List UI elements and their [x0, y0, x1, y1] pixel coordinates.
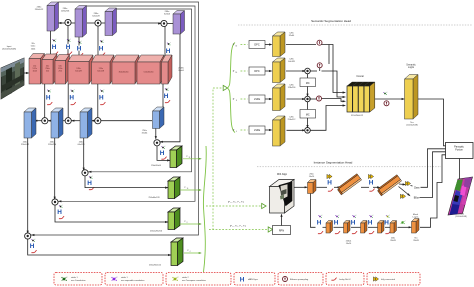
- svg-text:H: H: [87, 180, 92, 187]
- svg-text:H: H: [240, 276, 245, 283]
- svg-text:H: H: [66, 44, 71, 51]
- green output box P4 256x256x512: [171, 238, 183, 266]
- conv sparkle icon col3 lower: [100, 89, 104, 92]
- semantic yellow feature box row4: [273, 116, 286, 146]
- wire bar1 to bar2: [361, 186, 369, 188]
- upsample circle row1: [317, 40, 322, 45]
- wire backbone down col1: [44, 84, 46, 118]
- wire bar2 to bbox: [399, 187, 410, 196]
- conv sparkle icon col2 upper: [100, 40, 104, 43]
- wire row2 sum to upsample: [310, 70, 317, 72]
- svg-text:256x512: 256x512: [35, 9, 44, 11]
- conv sparkle icon col4 lower: [165, 88, 169, 91]
- legend cell bilinear upsampling: [278, 273, 323, 286]
- mask iABN 2: [333, 220, 338, 227]
- mask iABN 5: [384, 220, 389, 227]
- backbone red stage 6: [112, 55, 139, 84]
- wire bar2 to class: [399, 183, 405, 186]
- svg-text:H: H: [69, 94, 74, 101]
- arrow into P8 node: [58, 200, 61, 202]
- svg-text:256x256x512: 256x256x512: [149, 265, 162, 267]
- bottom-up FPN row wire: [34, 120, 42, 122]
- P8 merge node: [52, 199, 58, 205]
- green gathering brace: [203, 146, 206, 272]
- svg-text:64x128: 64x128: [92, 16, 100, 18]
- svg-text:H: H: [327, 180, 332, 187]
- svg-text:MC: MC: [306, 82, 310, 85]
- svg-text:256x64x128: 256x64x128: [149, 197, 161, 199]
- conv sparkle icon col2 lower: [71, 89, 75, 92]
- semantic yellow feature box row1: [273, 32, 286, 57]
- wire ROI to instance chains: [294, 186, 307, 188]
- arrow into node blue2: [71, 120, 74, 122]
- svg-text:Concat: Concat: [356, 75, 364, 78]
- wire upsample1 down to sum2: [328, 45, 330, 65]
- iABN icon col1-a upper: [51, 44, 56, 51]
- conv sparkle icon col1 lower: [47, 89, 51, 92]
- wire blue box3 down to P16 node: [83, 138, 85, 170]
- svg-text:ROI Align: ROI Align: [277, 173, 288, 176]
- svg-text:32x64: 32x64: [289, 35, 295, 37]
- mask conv sparkle 4: [369, 215, 373, 218]
- backbone red stage 7: [137, 55, 164, 84]
- RPN box: [273, 226, 291, 235]
- panoptic fusion box: [446, 143, 474, 159]
- svg-text:H: H: [57, 209, 62, 216]
- svg-text:Nₛx: Nₛx: [410, 122, 413, 124]
- svg-text:32x64: 32x64: [164, 14, 171, 16]
- instance head dashed boundary: [257, 166, 441, 168]
- wire DPC to feature box: [265, 70, 271, 72]
- top-down FPN bus wire from P8 unit, y=6: [58, 6, 195, 201]
- bottom-up sum node 3: [95, 118, 101, 124]
- P4 conv sparkle: [31, 239, 35, 242]
- iABN icon col4 lower: [163, 93, 168, 100]
- P16 iABN icon: [87, 180, 92, 187]
- leaky relu icon col1 lower: [47, 102, 52, 105]
- legend cell separable conv: [105, 273, 163, 286]
- svg-text:304x32x64: 304x32x64: [119, 72, 130, 74]
- P8 conv sparkle: [59, 205, 63, 208]
- mask iABN 1: [316, 220, 321, 227]
- LSFE module box row4: [249, 126, 265, 134]
- svg-text:BBox: BBox: [414, 198, 420, 200]
- leaky relu icon col2-b upper: [78, 53, 83, 56]
- green dashed stub P4: [241, 129, 248, 131]
- svg-text:28x28: 28x28: [413, 240, 419, 242]
- lateral wire backbone to FPN node col2: [97, 26, 99, 60]
- green output box P16 256x64x128: [168, 177, 180, 199]
- svg-text:RPN: RPN: [279, 230, 284, 233]
- legend cell fully connected: [367, 273, 420, 286]
- svg-text:H: H: [99, 45, 104, 52]
- svg-text:H: H: [368, 220, 373, 227]
- arrow into P16 node: [88, 171, 91, 173]
- svg-text:[P₃₂, P₁₆, P₈, P₄]: [P₃₂, P₁₆, P₈, P₄]: [228, 201, 244, 203]
- svg-text:256x: 256x: [309, 174, 313, 176]
- green dashed feed to RPN: [209, 229, 268, 231]
- legend cell transpose conv: [166, 273, 231, 286]
- svg-text:64x128: 64x128: [97, 71, 104, 73]
- mask conv box 1: [326, 221, 333, 234]
- svg-text:128x256: 128x256: [288, 87, 297, 89]
- mask iABN 4: [367, 220, 372, 227]
- svg-text:LSFE: LSFE: [254, 98, 261, 101]
- svg-text:H: H: [384, 220, 389, 227]
- arrow into P32 node: [160, 141, 163, 143]
- sum node row4: [305, 128, 311, 134]
- svg-text:non separable convolution: non separable convolution: [121, 279, 144, 282]
- wire DPC to feature box: [265, 44, 271, 46]
- concat block: [347, 82, 375, 112]
- svg-text:non Convolution: non Convolution: [71, 279, 85, 282]
- svg-text:256x4: 256x4: [346, 241, 352, 243]
- wire sum2 down through MC to sum3: [307, 74, 309, 78]
- svg-text:H: H: [46, 94, 51, 101]
- arrow into node blue1: [48, 120, 51, 122]
- svg-text:H: H: [166, 48, 171, 55]
- svg-text:H: H: [77, 45, 82, 52]
- green output box P32 256x32x64: [170, 146, 182, 168]
- svg-text:Instance Segmentation Head: Instance Segmentation Head: [314, 161, 353, 165]
- wire purple box A down to backbone: [50, 31, 52, 59]
- mask conv sparkle 5: [386, 215, 390, 218]
- fc star bbox: [400, 194, 405, 198]
- svg-text:stride 1: stride 1: [71, 276, 78, 279]
- mask wire staircase to fusion: [420, 155, 446, 228]
- leaky relu icon col4 upper: [167, 55, 172, 58]
- svg-text:128x: 128x: [289, 33, 293, 35]
- P32 out wire to green box: [157, 146, 170, 161]
- wire row1 to upsample: [286, 44, 316, 46]
- backbone red stage 2: [42, 54, 57, 84]
- wire RPN to ROI: [281, 215, 283, 226]
- wire row2 to concat: [322, 71, 345, 97]
- wire LSFE to feature box: [265, 129, 271, 131]
- blue FPN box 1 256x256x512: [24, 108, 36, 138]
- svg-text:64x128: 64x128: [75, 71, 82, 73]
- LSFE module box row3: [249, 95, 265, 103]
- semantic head dashed boundary: [238, 24, 472, 26]
- wire blue box2 down to P8 node: [54, 138, 56, 199]
- wire down to mask chain: [311, 194, 316, 228]
- svg-text:128x: 128x: [289, 59, 293, 61]
- lateral wire backbone to FPN node col1: [67, 26, 69, 60]
- wire row3 sum to upsample: [309, 98, 316, 100]
- semantic yellow feature box row2: [273, 58, 286, 83]
- backbone red stage 4: [68, 55, 93, 84]
- wire concat to semantic logits: [375, 98, 404, 100]
- svg-text:512x256x512: 512x256x512: [351, 115, 364, 117]
- blue FPN box 3 256x64x128: [80, 108, 92, 138]
- FPN P32 unit output wire down from purple box D: [160, 34, 180, 142]
- leaky relu icon col1-a upper: [53, 52, 58, 55]
- arrowhead into semantic brace: [223, 85, 227, 90]
- wire row2 to sum: [286, 70, 304, 72]
- wire into bar1: [334, 186, 340, 188]
- leaky relu icon col1 upper: [67, 52, 72, 55]
- mask conv box 4: [378, 221, 385, 234]
- DPC module box row2: [249, 67, 265, 75]
- svg-text:2: 2: [405, 220, 406, 222]
- green dashed feed to ROI align: [206, 205, 261, 207]
- svg-text:stride 2: stride 2: [182, 276, 189, 279]
- mask conv box 3: [361, 221, 368, 234]
- mask relu 3: [352, 231, 357, 234]
- FPN sum node between A and B: [65, 19, 71, 25]
- svg-text:Logits: Logits: [408, 66, 415, 69]
- svg-text:DPC: DPC: [254, 70, 259, 73]
- svg-text:4: 4: [236, 131, 237, 133]
- svg-text:Input: Input: [7, 45, 12, 48]
- mask conv box 5: [390, 221, 397, 234]
- mask conv box 2: [344, 221, 351, 234]
- wire into bar2: [373, 186, 379, 188]
- P32 leaky relu: [161, 157, 166, 160]
- wire blue box4 down to P32 node: [155, 129, 157, 139]
- sum node row3: [305, 96, 311, 102]
- mask logits box: [412, 219, 420, 234]
- iABN icon col2 lower: [69, 94, 74, 101]
- iABN top2: [368, 180, 373, 187]
- legend cell iABN sync: [234, 273, 275, 286]
- arrow into blue box1: [34, 120, 37, 122]
- purple FPN box C 256x64x128: [105, 8, 117, 36]
- wire sum3 down through MC to sum4: [307, 102, 309, 110]
- semantic logits box: [405, 75, 419, 120]
- backbone red stage 3: [55, 55, 70, 85]
- transpose conv sparkle before mask logits: [401, 220, 406, 224]
- leaky relu icon col2 upper: [100, 53, 105, 56]
- P4 iABN icon: [29, 243, 34, 250]
- P4 merge node: [25, 233, 31, 239]
- top-down FPN bus wire from P16 unit, y=9: [88, 9, 192, 172]
- svg-text:H: H: [160, 150, 165, 157]
- mask chain wire: [323, 226, 327, 228]
- instance input box 256x14x14: [308, 180, 317, 194]
- blue FPN box 4 256x32x64: [153, 107, 165, 129]
- iABN icon col1 upper: [65, 44, 70, 51]
- mask iABN 3: [350, 220, 355, 227]
- iABN icon col2-b upper: [76, 45, 81, 52]
- svg-text:128x256: 128x256: [48, 144, 57, 146]
- FPN sum node between B and C: [95, 20, 101, 26]
- relu top1: [328, 189, 333, 192]
- svg-text:H: H: [351, 220, 356, 227]
- P32 iABN icon: [159, 150, 164, 157]
- svg-text:256x512: 256x512: [21, 144, 30, 146]
- mask relu 4: [369, 231, 374, 234]
- svg-text:Bilinear upsampling: Bilinear upsampling: [290, 278, 309, 281]
- P32 green arrow out: [183, 158, 201, 160]
- svg-text:16: 16: [235, 72, 237, 74]
- iABN icon col4 upper: [165, 48, 170, 55]
- iABN icon col2 upper: [98, 45, 103, 52]
- P4 out wire to green box: [28, 239, 171, 255]
- DPC module box row1: [249, 41, 265, 49]
- class arrow: [411, 185, 413, 188]
- purple FPN box A 256x256x512: [47, 2, 59, 31]
- wire row3 to concat: [322, 99, 345, 102]
- svg-text:28x28: 28x28: [390, 240, 396, 242]
- legend cell convolution: [54, 273, 102, 286]
- P32 conv sparkle: [161, 146, 165, 149]
- P16 out wire to green box: [85, 176, 168, 188]
- arrow input to backbone: [24, 72, 28, 74]
- P8 iABN icon: [57, 209, 62, 216]
- svg-text:DPC: DPC: [254, 44, 259, 47]
- svg-text:[P₃₂, P₁₆, P₈, P₄]: [P₃₂, P₁₆, P₈, P₄]: [230, 225, 246, 227]
- svg-text:(3x1024x2048): (3x1024x2048): [2, 49, 16, 51]
- svg-text:(1024x2048): (1024x2048): [455, 216, 467, 218]
- input city image: [1, 58, 24, 99]
- svg-text:32: 32: [189, 157, 191, 159]
- svg-text:32: 32: [235, 45, 237, 47]
- wire backbone down col3: [97, 84, 99, 118]
- MC box row2-3: [300, 78, 316, 87]
- backbone red stage 5: [92, 55, 115, 84]
- svg-text:14x14: 14x14: [346, 243, 352, 245]
- conv sparkle icon col1 upper: [67, 39, 71, 42]
- svg-text:256x128x256: 256x128x256: [150, 231, 163, 233]
- mask conv sparkle 1: [318, 215, 322, 218]
- P16 green arrow out: [180, 189, 201, 191]
- sum node row2: [305, 68, 311, 74]
- purple FPN box D 256x32x64: [173, 11, 185, 35]
- P8 green arrow out: [180, 223, 201, 225]
- P8 out wire to green box: [55, 205, 168, 222]
- svg-text:Fusion: Fusion: [455, 149, 463, 152]
- semantic input brace: [227, 43, 235, 133]
- svg-text:H: H: [334, 220, 339, 227]
- svg-text:H: H: [99, 94, 104, 101]
- svg-text:256x: 256x: [391, 238, 395, 240]
- svg-text:H: H: [30, 243, 35, 250]
- svg-text:Logits: Logits: [413, 216, 420, 219]
- arrow into node blue3: [91, 120, 94, 122]
- green dashed stub P8: [241, 98, 248, 100]
- wire purple box B down to backbone: [78, 37, 80, 61]
- svg-text:32x64: 32x64: [142, 133, 149, 135]
- svg-text:128x: 128x: [289, 85, 293, 87]
- P16 leaky relu: [89, 187, 94, 190]
- arrow into P4 node: [31, 234, 34, 236]
- P4 green arrow out: [184, 252, 201, 254]
- purple FPN box B 256x128x256: [75, 6, 87, 38]
- green dashed feed to semantic head: [212, 88, 214, 230]
- wire LSFE to feature box: [265, 98, 271, 100]
- svg-text:(1024x2048): (1024x2048): [406, 125, 418, 127]
- svg-text:256x32x64: 256x32x64: [151, 165, 162, 167]
- P4 leaky relu: [31, 250, 36, 253]
- svg-text:128x256: 128x256: [61, 11, 70, 13]
- svg-text:stride 1: stride 1: [121, 276, 128, 279]
- wire blue box1 down to P4 node: [27, 138, 29, 233]
- class wire to fusion: [421, 149, 446, 188]
- wire to mask logits box: [398, 226, 411, 228]
- P16 merge node: [82, 170, 88, 176]
- svg-text:32x64: 32x64: [178, 70, 184, 72]
- svg-text:14x14: 14x14: [309, 176, 315, 178]
- relu top2: [369, 189, 374, 192]
- lateral wire backbone to FPN node col3: [164, 26, 166, 60]
- mask relu 2: [335, 231, 340, 234]
- ROI align box: [270, 180, 295, 214]
- svg-text:Output: Output: [458, 212, 464, 215]
- mask conv sparkle 3: [352, 215, 356, 218]
- svg-text:Class: Class: [414, 187, 421, 189]
- wire row4 to sum: [287, 129, 305, 131]
- svg-text:Mask: Mask: [413, 214, 419, 216]
- mask conv sparkle 2: [335, 215, 339, 218]
- fc star top2: [368, 174, 373, 178]
- blue FPN box 2 256x128x256: [51, 108, 63, 138]
- green output box P8 256x128x256: [168, 208, 180, 230]
- svg-text:H: H: [164, 93, 169, 100]
- leaky relu icon col2 lower: [71, 102, 76, 105]
- iABN icon col3 lower: [99, 94, 104, 101]
- wire backbone down col2: [67, 84, 69, 118]
- upsample x4 circle: [384, 101, 389, 106]
- output panoptic image: [448, 177, 473, 215]
- mask relu 5: [385, 231, 390, 234]
- svg-text:256x512: 256x512: [288, 119, 297, 121]
- wire row3 to sum: [287, 98, 305, 100]
- svg-text:H: H: [369, 180, 374, 187]
- wire fusion to output: [459, 159, 461, 184]
- svg-text:fully connected: fully connected: [381, 278, 396, 281]
- bbox wire to fusion: [420, 152, 446, 198]
- arrow into FPN sum node near box D: [158, 22, 161, 24]
- iABN icon col1 lower: [46, 94, 51, 101]
- fc star top1: [327, 174, 332, 178]
- leaky relu icon col4 lower: [165, 100, 170, 103]
- svg-text:8: 8: [236, 100, 237, 102]
- leaky relu icon col3 lower: [100, 102, 105, 105]
- backbone red stage 1: [29, 54, 45, 85]
- iABN top1: [327, 180, 332, 187]
- P8 leaky relu: [59, 216, 64, 219]
- wire row4 to concat: [310, 106, 344, 131]
- arrow into purple box A: [58, 22, 61, 24]
- svg-text:H: H: [52, 44, 57, 51]
- mask relu 1: [318, 231, 323, 234]
- svg-text:64x128: 64x128: [288, 61, 295, 63]
- wire backbone down col4 to blue box4: [162, 84, 164, 108]
- P16 conv sparkle: [89, 176, 93, 179]
- top-down FPN bus wire from P4 unit, y=2: [30, 2, 199, 235]
- instance conv bar 2: [382, 180, 402, 195]
- upsample circle row3: [317, 96, 322, 101]
- svg-text:512x32x64: 512x32x64: [144, 72, 155, 74]
- P32 merge node: [154, 140, 160, 146]
- svg-text:Semantic: Semantic: [406, 64, 416, 67]
- semantic yellow feature box row3: [273, 84, 286, 111]
- svg-text:128x: 128x: [289, 117, 293, 119]
- wire to bbox chain: [317, 186, 328, 188]
- bottom-up sum node 1: [42, 118, 48, 124]
- wire semantic logits to fusion: [418, 99, 446, 146]
- svg-text:Semantic Segmentation Head: Semantic Segmentation Head: [311, 19, 351, 23]
- svg-text:H: H: [317, 220, 322, 227]
- wire row1 to concat: [322, 45, 345, 93]
- green dashed stub P32: [241, 44, 248, 46]
- svg-text:iABN Sync: iABN Sync: [248, 278, 258, 281]
- conv sparkle icon col4 upper: [167, 42, 171, 45]
- svg-text:Leaky ReLU: Leaky ReLU: [339, 279, 351, 281]
- MC box row3-4: [300, 110, 316, 119]
- FPN top row horizontal wire: [59, 22, 66, 24]
